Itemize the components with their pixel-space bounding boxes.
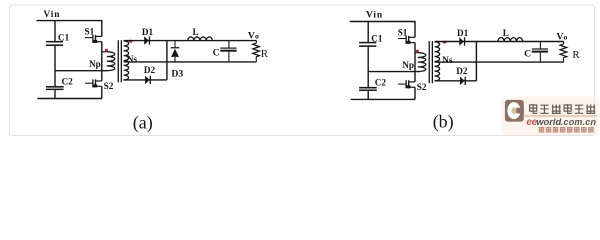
capacitor C2 (a) <box>46 77 73 91</box>
watermark logo icon <box>505 100 524 122</box>
resistor R load (a) <box>253 41 269 62</box>
svg-text:C2: C2 <box>62 77 74 87</box>
svg-text:C: C <box>213 48 220 59</box>
svg-text:Ns: Ns <box>442 55 453 65</box>
net Vin label (a) <box>43 10 60 20</box>
svg-text:S1: S1 <box>398 27 408 37</box>
caption (b) <box>433 111 454 132</box>
wire riser D2-to-node (b) <box>475 42 477 81</box>
svg-text:D2: D2 <box>144 65 156 75</box>
wire left branch (a) <box>54 21 56 99</box>
svg-text:(b): (b) <box>433 111 454 132</box>
wire output top rail (a) <box>124 40 257 42</box>
watermark url text <box>526 116 596 128</box>
watermark underline <box>525 115 598 116</box>
svg-text:S2: S2 <box>104 81 114 91</box>
resistor R load (b) <box>560 42 580 63</box>
wire secondary bottom to riser (a) <box>124 79 167 81</box>
watermark title text (CJK) <box>530 104 596 114</box>
svg-text:world: world <box>536 116 561 127</box>
svg-text:Vo: Vo <box>248 31 259 42</box>
polarity dot primary (a) <box>105 49 108 52</box>
svg-text:D2: D2 <box>456 66 468 76</box>
watermark slogan text <box>539 128 593 133</box>
wire riser D2-to-node (a) <box>166 41 168 80</box>
diode D1 (b) <box>457 28 469 46</box>
svg-text:Vo: Vo <box>556 32 567 43</box>
svg-text:Np: Np <box>402 60 414 70</box>
polarity dot primary (b) <box>416 50 419 53</box>
net Vo label (a) <box>248 31 259 42</box>
transistor S1 (b) <box>398 27 415 44</box>
polarity dot secondary (b) <box>443 41 447 44</box>
transistor S2 (b) <box>398 80 427 92</box>
inductor L (b) <box>498 28 523 42</box>
svg-text:R: R <box>261 48 269 60</box>
transformer primary winding Np (a) <box>89 52 115 71</box>
wire midpoint to primary bottom (a) <box>55 70 108 72</box>
polarity dot secondary (a) <box>129 40 133 43</box>
svg-text:Vin: Vin <box>43 10 60 20</box>
capacitor C1 (b) <box>359 33 383 46</box>
svg-text:C1: C1 <box>371 33 383 43</box>
transformer primary winding Np (b) <box>402 53 426 72</box>
wire top rail Vin+ (a) <box>37 20 103 22</box>
diode D1 (a) <box>142 27 154 45</box>
inductor L (a) <box>188 27 213 41</box>
svg-text:Np: Np <box>89 59 101 69</box>
transistor S2 (a) <box>85 79 114 91</box>
svg-text:L: L <box>193 27 199 37</box>
net Vo label (b) <box>556 32 567 43</box>
capacitor C1 (a) <box>46 33 70 47</box>
wire bottom rail Vin- (b) <box>351 98 416 100</box>
capacitor C output (a) <box>213 41 237 62</box>
svg-text:C: C <box>524 49 531 60</box>
wire secondary bottom to riser (b) <box>435 80 477 82</box>
transformer secondary winding Ns (b) <box>435 42 453 81</box>
svg-text:Vin: Vin <box>366 11 383 21</box>
watermark backdrop <box>501 97 599 136</box>
transformer core (a) <box>118 40 122 82</box>
svg-text:D1: D1 <box>142 27 154 37</box>
wire top rail Vin+ (b) <box>350 21 416 23</box>
svg-text:R: R <box>572 49 580 61</box>
svg-text:S2: S2 <box>417 82 427 92</box>
svg-text:C2: C2 <box>375 78 387 88</box>
wire output bottom rail (b) <box>435 61 564 63</box>
transformer secondary winding Ns (a) <box>124 41 138 80</box>
diode D2 (a) <box>144 65 156 84</box>
wire right branch (a) <box>101 20 103 99</box>
page border frame <box>10 5 595 136</box>
wire output bottom rail (a) <box>124 61 257 63</box>
wire left branch (b) <box>367 22 369 100</box>
wire midpoint to primary bottom (b) <box>368 71 419 73</box>
wire bottom rail Vin- (a) <box>38 98 103 100</box>
wire output top rail (b) <box>435 41 564 43</box>
transformer core (b) <box>429 41 433 83</box>
diode D2 (b) <box>456 66 468 85</box>
diode D3 (a) <box>171 41 184 80</box>
svg-text:D1: D1 <box>457 28 469 38</box>
capacitor C output (b) <box>524 42 548 63</box>
svg-text:C1: C1 <box>58 33 70 43</box>
svg-text:S1: S1 <box>85 26 95 36</box>
svg-text:(a): (a) <box>133 112 153 133</box>
wire right branch (b) <box>414 21 416 100</box>
svg-text:D3: D3 <box>171 69 183 80</box>
caption (a) <box>133 112 153 133</box>
svg-text:L: L <box>503 28 509 38</box>
net Vin label (b) <box>366 11 383 21</box>
svg-text:.com.cn: .com.cn <box>561 117 597 127</box>
transistor S1 (a) <box>85 26 102 43</box>
page background <box>0 0 600 138</box>
capacitor C2 (b) <box>359 78 386 92</box>
